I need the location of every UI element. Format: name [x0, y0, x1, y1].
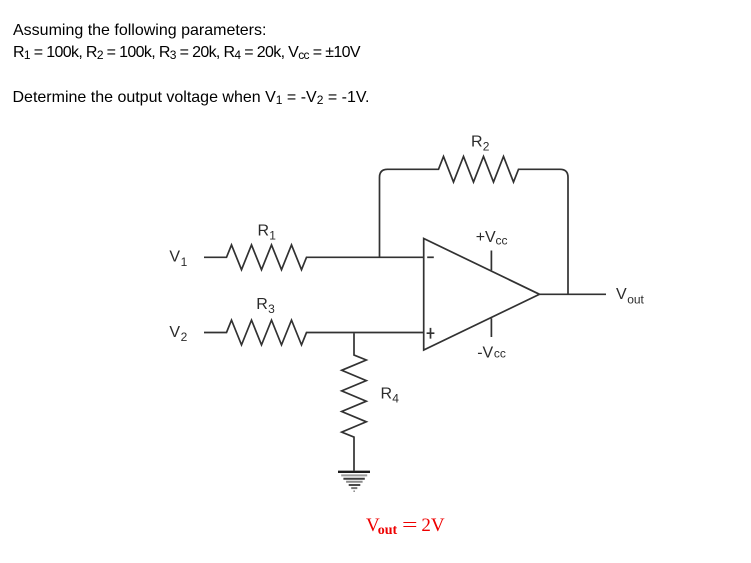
svg-text:2: 2 [181, 330, 188, 344]
svg-text:V: V [169, 324, 180, 341]
svg-text:R: R [471, 133, 483, 150]
svg-text:R: R [381, 385, 393, 402]
svg-text:R: R [258, 222, 270, 239]
svg-text:2: 2 [483, 140, 490, 154]
svg-text:3: 3 [268, 302, 275, 316]
svg-text:out: out [627, 293, 644, 307]
svg-text:1: 1 [181, 255, 188, 269]
svg-text:-V: -V [477, 345, 493, 362]
svg-text:cc: cc [494, 347, 506, 361]
svg-text:V: V [616, 286, 627, 303]
svg-text:4: 4 [392, 392, 399, 406]
svg-text:cc: cc [496, 233, 508, 247]
svg-text:V: V [169, 249, 180, 266]
svg-text:R: R [256, 296, 268, 313]
svg-text:1: 1 [269, 229, 276, 243]
svg-text:+V: +V [476, 229, 496, 246]
